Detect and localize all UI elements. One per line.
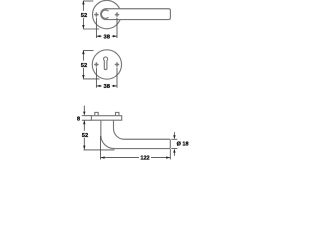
screw left (view 1)	[94, 12, 98, 16]
dim 122 extension line left	[100, 136, 102, 160]
svg-text:122: 122	[140, 155, 149, 160]
dim d16 arrow up (below)	[173, 149, 175, 153]
lever neck inner arc (C shape)	[101, 10, 108, 18]
dim d16 arrow down (above)	[173, 135, 175, 139]
dim 8 extension line top	[82, 115, 92, 117]
dim d16 vertical line below	[173, 152, 175, 156]
dim 52 arrow down (view 1)	[82, 25, 84, 29]
rose plate side view	[91, 116, 121, 121]
escutcheon circle	[92, 50, 121, 79]
dim 122 arrow left	[101, 156, 105, 158]
dim 52 vertical line (view 3)	[83, 120, 85, 149]
dim 38 extension line left (view 2)	[95, 68, 97, 88]
svg-text:Ø 18: Ø 18	[177, 142, 189, 148]
dim 52 extension line bottom (view 1)	[83, 28, 99, 30]
rose circle (top view)	[93, 0, 121, 28]
keyhole	[104, 57, 108, 70]
dim 52 extension line top (view 1)	[83, 0, 93, 2]
svg-text:38: 38	[103, 34, 110, 40]
dim 38 extension line left (view 1)	[95, 18, 97, 38]
dim 8 extension line bottom	[82, 119, 92, 121]
dim 52 extension line bottom (view 3)	[84, 149, 115, 151]
screw left (view 2)	[94, 62, 98, 66]
dim 52 extension line top (view 2)	[83, 50, 94, 52]
dim d16 vertical line above	[173, 132, 175, 135]
screw boss right tab	[116, 112, 119, 115]
svg-text:52: 52	[81, 63, 87, 69]
dim 38 extension line right (view 2)	[116, 68, 118, 88]
dim 122 arrow right	[166, 156, 170, 158]
dim 122 extension line right	[169, 149, 171, 160]
dim d16 extension line top	[171, 138, 177, 140]
screw right (view 1)	[115, 12, 119, 16]
dim 38 line (view 1)	[96, 35, 117, 37]
svg-text:38: 38	[103, 84, 110, 90]
dim 52 arrow up (view 3)	[83, 120, 85, 124]
dim 38 arrow right (view 2)	[113, 85, 117, 87]
screw boss left tab	[95, 112, 98, 115]
dim 52 extension line bottom (view 2)	[83, 78, 100, 80]
svg-text:52: 52	[81, 13, 87, 19]
dim 8 arrow down	[83, 112, 85, 116]
dim 52 arrow up (view 2)	[82, 50, 84, 54]
handle side profile (neck bending into grip)	[101, 120, 170, 148]
dim 52 vertical line (view 2)	[82, 51, 84, 79]
dim 122 line	[101, 157, 171, 159]
dim 38 arrow left (view 2)	[97, 85, 101, 87]
dim 38 arrow right (view 1)	[113, 35, 117, 37]
dim 52 arrow up (view 1)	[82, 1, 84, 5]
dim 52 vertical line (view 1)	[82, 1, 84, 28]
dim 52 arrow down (view 3)	[83, 146, 85, 150]
screw right (view 2)	[115, 62, 119, 66]
dim 38 extension line right (view 1)	[116, 18, 118, 38]
dim 38 line (view 2)	[96, 85, 117, 87]
lever grip (stadium shape, white fill hides rose behind)	[101, 9, 171, 20]
svg-text:52: 52	[82, 133, 88, 139]
dim 38 arrow left (view 1)	[97, 35, 101, 37]
dim 52 arrow down (view 2)	[82, 75, 84, 79]
dim 8 vertical line with down arrow	[83, 106, 85, 112]
dim d16 extension line bottom	[171, 148, 177, 150]
